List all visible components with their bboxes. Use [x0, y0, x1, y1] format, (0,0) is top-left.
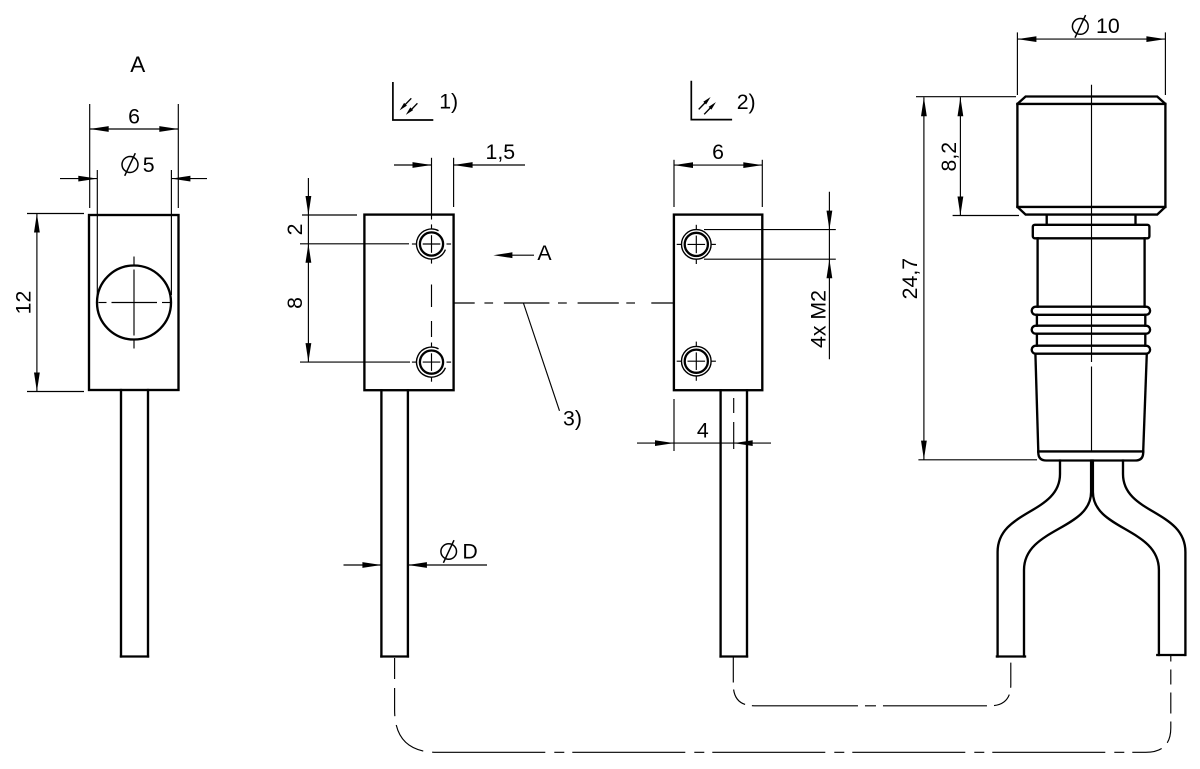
label 1)	[439, 89, 458, 113]
barrel segment b	[1037, 334, 1145, 346]
fiber route: view 1 to connector right cable	[395, 656, 1171, 753]
svg-text:10: 10	[1096, 14, 1120, 38]
sensor body (view 2)	[674, 215, 762, 391]
screw hole V2 top (M2)	[677, 225, 716, 264]
leader 3)	[523, 303, 582, 431]
dimension 1,5 (hole offset)	[394, 140, 525, 220]
M2 tangent extension lines	[704, 230, 836, 260]
connector centreline	[1091, 85, 1093, 452]
dimension Ø5 (lens diameter)	[60, 153, 207, 295]
lens circle	[97, 266, 171, 340]
section line A-A	[454, 302, 674, 304]
optical-axis symbol 1 arrows (incoming)	[400, 98, 418, 115]
connector upper barrel	[1038, 238, 1145, 306]
dimension 4 (cable offset)	[637, 399, 771, 451]
connector knurled nut	[1017, 97, 1165, 215]
svg-text:3): 3)	[563, 407, 582, 431]
hole pitch centreline (view 1)	[431, 285, 433, 338]
svg-text:A: A	[537, 241, 552, 265]
svg-text:D: D	[462, 540, 477, 564]
optical-axis symbol 1 bracket	[393, 82, 433, 120]
fiber route: view 2 to connector left cable	[733, 657, 1011, 706]
dimension 12 (head height)	[12, 214, 85, 392]
svg-text:2: 2	[283, 223, 307, 235]
svg-text:1): 1)	[439, 89, 458, 113]
optical-axis symbol 2 bracket	[691, 81, 732, 120]
svg-text:8,2: 8,2	[937, 142, 961, 172]
dimension Ø10 (connector diameter)	[1017, 14, 1165, 95]
grip ring 2	[1032, 326, 1150, 334]
label 2)	[737, 90, 756, 114]
dimension 8,2 (nut length)	[937, 97, 1019, 215]
sensor head body (side view A)	[89, 215, 179, 390]
sensor body (view 1)	[364, 215, 453, 391]
svg-text:4x M2: 4x M2	[807, 290, 831, 348]
view label A	[130, 52, 145, 77]
svg-text:12: 12	[12, 291, 36, 315]
dimension 4x M2	[807, 192, 833, 360]
fiber cable (view 2)	[721, 390, 747, 656]
dimension 2 and 8 (hole positions)	[283, 178, 410, 362]
connector left cable	[997, 461, 1091, 657]
dimension ØD (cable diameter)	[344, 540, 488, 568]
connector flange	[1033, 225, 1150, 239]
screw hole V2 bottom (M2)	[677, 342, 716, 381]
dimension 6 (view 2 width)	[674, 140, 762, 207]
screw hole V1 top (M2)	[412, 224, 451, 263]
svg-text:1,5: 1,5	[486, 140, 516, 164]
svg-text:2): 2)	[737, 90, 756, 114]
screw hole V1 bottom (M2)	[412, 343, 451, 382]
svg-text:A: A	[130, 52, 145, 77]
fiber cable (left view)	[121, 390, 148, 657]
svg-text:24,7: 24,7	[898, 258, 922, 299]
dimension 24,7 (connector length)	[898, 97, 1037, 460]
dimension 6 (left view width)	[90, 104, 179, 208]
svg-text:6: 6	[712, 140, 724, 164]
svg-text:8: 8	[283, 297, 307, 309]
grip ring 3	[1032, 346, 1150, 354]
view direction arrow A	[493, 241, 552, 265]
svg-text:5: 5	[143, 153, 155, 177]
optical-axis symbol 2 arrows (outgoing)	[699, 97, 716, 114]
connector lower body	[1035, 354, 1146, 452]
lens centrelines	[99, 257, 171, 349]
svg-text:6: 6	[128, 105, 140, 129]
grip ring 1	[1032, 307, 1150, 315]
cable centreline (view 2)	[733, 398, 735, 449]
connector bottom cap	[1038, 451, 1143, 460]
barrel segment a	[1037, 315, 1145, 326]
svg-text:4: 4	[697, 418, 709, 442]
fiber cable (view 1)	[381, 390, 408, 656]
connector neck	[1047, 215, 1136, 225]
connector right cable	[1093, 461, 1186, 656]
